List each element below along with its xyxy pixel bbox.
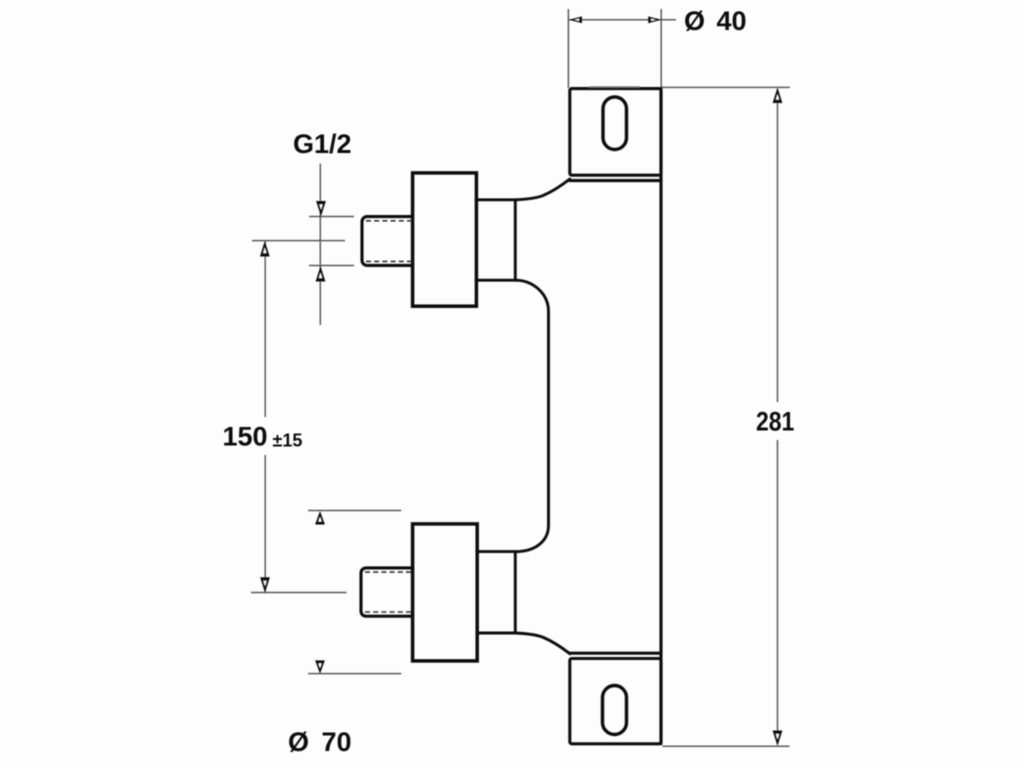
svg-text:150: 150 <box>223 422 268 452</box>
svg-text:Ø70: Ø70 <box>288 727 352 757</box>
svg-text:±15: ±15 <box>273 431 303 451</box>
svg-text:Ø40: Ø40 <box>684 6 747 36</box>
svg-text:G1/2: G1/2 <box>293 129 352 159</box>
svg-text:281: 281 <box>756 407 794 437</box>
